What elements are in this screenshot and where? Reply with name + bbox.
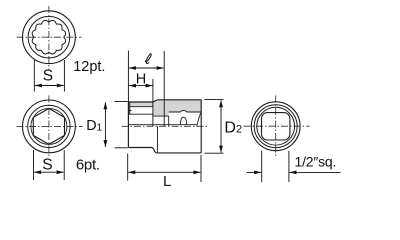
- outer circle 6pt: [23, 100, 76, 153]
- centerline horizontal (right view): [244, 125, 310, 127]
- dimension 1/2 sq: [247, 151, 341, 182]
- outline of socket body: [128, 100, 201, 153]
- cavity silhouette line: [129, 124, 197, 126]
- label l (script ell): [145, 54, 151, 64]
- hex hole top line: [129, 106, 152, 108]
- dimension l (ell): [128, 51, 164, 127]
- internal cavity lines: [129, 107, 201, 153]
- right end: [200, 100, 202, 153]
- dimension S (bottom): [34, 150, 65, 180]
- hex corner line: [129, 113, 152, 115]
- body bottom edge: [128, 148, 201, 153]
- ring circle right view: [254, 105, 297, 148]
- dimension D2: [205, 100, 224, 154]
- square hole corner arc: [197, 112, 201, 126]
- centerline vertical (6pt view): [48, 96, 50, 159]
- svg-text:12pt.: 12pt.: [73, 59, 105, 75]
- square drive hole: [262, 113, 290, 140]
- outer circle right view: [251, 102, 300, 151]
- centerline horizontal (6pt view): [17, 125, 83, 127]
- dimension D1: [105, 102, 127, 148]
- centerline vertical (right view): [275, 96, 277, 158]
- detent ball dome: [180, 117, 186, 125]
- outer circle 12pt: [23, 11, 76, 64]
- svg-text:S: S: [42, 157, 52, 174]
- inner circle 12pt: [28, 16, 70, 58]
- centerline horizontal (12pt view): [17, 36, 82, 38]
- square hole wall with ball recess hump: [169, 110, 202, 112]
- dimension L: [128, 154, 201, 183]
- inner circle right view: [257, 107, 295, 145]
- gray section fill: [128, 100, 201, 116]
- dimension H: [129, 79, 153, 126]
- external transition edge: [157, 126, 159, 153]
- svg-text:S: S: [43, 67, 53, 84]
- side view centerline: [122, 125, 209, 127]
- 12-point profile: [32, 20, 66, 54]
- cone floor line: [153, 115, 169, 117]
- dark front wall band: [128, 102, 130, 115]
- svg-text:1/2″sq.: 1/2″sq.: [295, 154, 337, 170]
- dimension S (top): [34, 60, 64, 92]
- svg-text:6pt.: 6pt.: [76, 156, 100, 173]
- centerline vertical (12pt view): [48, 6, 50, 70]
- through-hole step vertical: [168, 116, 170, 126]
- stub top edge: [128, 100, 201, 102]
- hex circumcircle: [31, 108, 67, 144]
- inner circle 6pt: [28, 105, 70, 147]
- front chamfer short line: [129, 109, 132, 111]
- front face: [127, 102, 129, 148]
- svg-text:L: L: [163, 173, 171, 190]
- svg-text:H: H: [136, 72, 146, 88]
- hexagon: [33, 108, 64, 144]
